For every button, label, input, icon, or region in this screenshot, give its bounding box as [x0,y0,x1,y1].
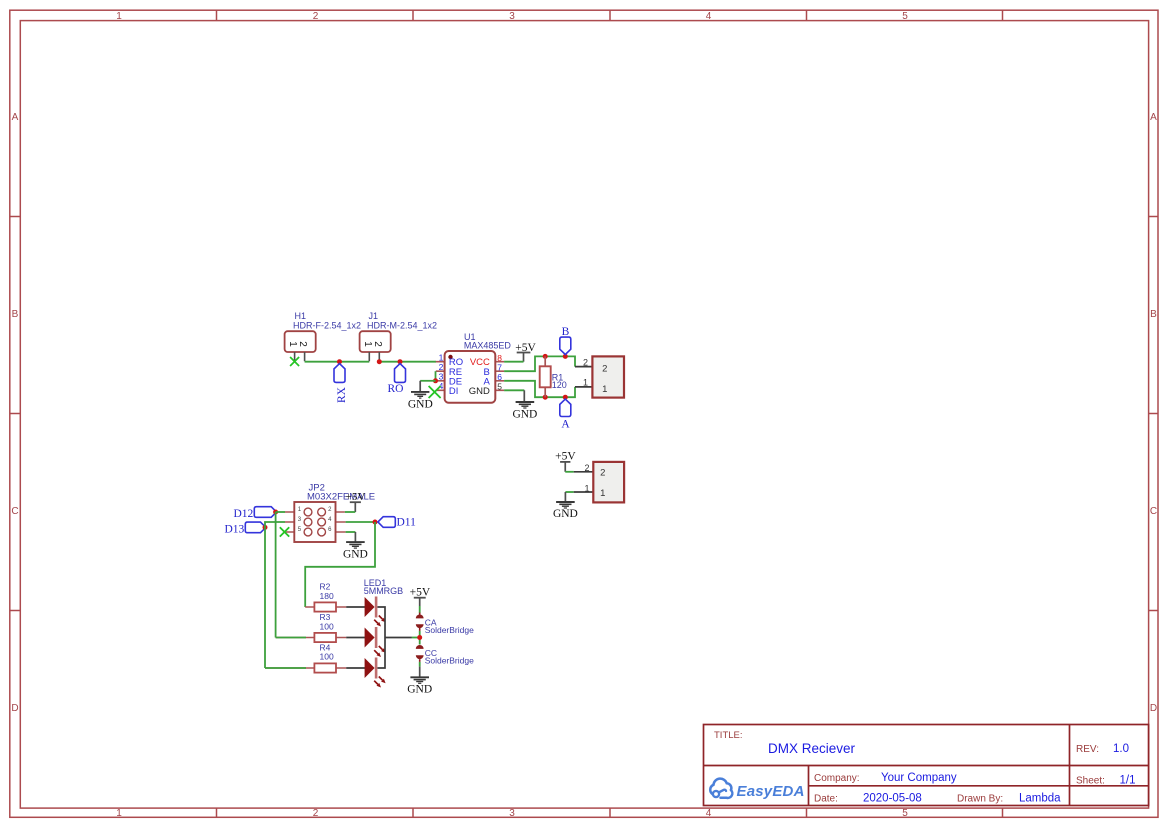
U1 pin number 8 [497,353,502,363]
junction RX [337,359,342,364]
svg-text:D: D [1150,703,1157,714]
junction D11 [373,520,378,525]
U1 pin number 7 [497,363,502,373]
P2 pin label 2 [584,463,589,473]
svg-text:1: 1 [116,808,122,819]
wire net RO (J1.2 to U1.1) [379,361,436,363]
svg-text:2020-05-08: 2020-05-08 [863,793,922,805]
JP2 pin number 1 [298,507,302,513]
net flag D12 [233,507,276,520]
svg-text:TITLE:: TITLE: [714,730,743,741]
JP2 pin number 2 [328,507,332,513]
wire R4 left green [265,667,306,669]
svg-text:C: C [11,506,18,517]
junction D13 [263,525,268,530]
U1 pin number 1 [439,352,444,362]
U1 pin name RE [449,367,462,378]
no-connect X on U1 pin 4 DI [429,386,441,398]
P1 pin label 2 [583,357,588,367]
header JP2 [285,483,375,543]
U1 pin name B [484,367,490,378]
wire LED cathode bus [378,607,412,668]
svg-text:Sheet:: Sheet: [1076,776,1105,787]
wire R2 to LED1 red anode [346,606,365,608]
solder bridge CA [416,613,474,635]
U1 pin name VCC [470,357,490,368]
wire D11 down and across to R2 [305,522,375,607]
svg-text:HDR-F-2.54_1x2: HDR-F-2.54_1x2 [293,321,361,331]
svg-text:2: 2 [313,808,319,819]
resistor R1 [540,356,567,397]
junction R1 top [543,354,548,359]
U1 pin name GND [469,386,490,397]
svg-text:3: 3 [509,11,515,22]
svg-text:DMX Reciever: DMX Reciever [768,741,856,756]
wire CC to ground [419,662,421,677]
wire net B [504,356,575,371]
net flag RO [388,364,406,395]
power +5V at U1 pin 8 [515,342,536,362]
connector P1 [592,356,624,397]
svg-text:1: 1 [583,378,588,388]
svg-text:B: B [12,309,19,320]
U1 pin name RO [449,357,463,368]
U1 pin name DI [449,386,459,397]
svg-text:GND: GND [512,409,537,421]
resistor R4 [265,642,346,672]
svg-text:8: 8 [497,353,502,363]
svg-text:A: A [12,112,19,123]
svg-text:120: 120 [552,380,567,390]
svg-text:RO: RO [388,383,404,395]
wire RE-DE tie [435,371,437,381]
svg-text:2: 2 [584,463,589,473]
junction D12 [273,510,278,515]
svg-text:Lambda: Lambda [1019,793,1061,805]
svg-text:5: 5 [902,808,908,819]
wire JP2 pin 3 to D13 and down to R4 [265,522,285,668]
JP2 pin number 3 [298,517,302,523]
svg-text:H1: H1 [295,311,307,321]
junction J1.2 [377,359,382,364]
svg-text:100: 100 [320,621,334,631]
wire DE to ground [420,381,435,392]
wire R4 to LED1 blue anode [346,667,365,669]
LED LED1 5MMRGB label [364,578,404,596]
svg-text:D12: D12 [233,508,253,520]
net flag RX [334,364,348,403]
ground near U1 [408,392,433,410]
power +5V at P2 [555,451,576,472]
svg-text:1: 1 [584,484,589,494]
svg-text:5MMRGB: 5MMRGB [364,586,404,596]
svg-text:1: 1 [116,11,122,22]
op-amp U1 MAX485ED [436,332,512,403]
svg-text:2: 2 [313,11,319,22]
svg-text:B: B [562,326,570,338]
wire P2 pin 1 [565,492,593,502]
wire net RX (H1.2 to J1.1) [305,361,370,363]
svg-text:1.0: 1.0 [1113,743,1129,755]
net flag D11 [378,517,416,529]
svg-text:GND: GND [408,398,433,410]
svg-text:4: 4 [706,11,712,22]
svg-text:DI: DI [449,386,459,397]
svg-text:Drawn By:: Drawn By: [957,794,1003,805]
LED1 green diode [365,627,386,657]
svg-text:180: 180 [320,591,334,601]
wire D12 to JP2 pin 1 [276,511,285,513]
svg-text:2: 2 [439,362,444,372]
svg-text:GND: GND [407,684,432,696]
wire D12 down to R3 [275,512,277,638]
junction DE [433,378,438,383]
svg-text:HDR-M-2.54_1x2: HDR-M-2.54_1x2 [367,321,437,331]
svg-text:REV:: REV: [1076,744,1099,755]
connector P1 pins [575,367,592,387]
svg-text:+5V: +5V [346,491,366,503]
header J1 [360,311,437,361]
svg-text:7: 7 [497,363,502,373]
svg-text:2: 2 [600,468,605,479]
junction R1 bottom [543,395,548,400]
no-connect X on JP2 pin 5 [280,527,289,536]
power +5V at JP2 pin 2 [346,491,366,512]
svg-text:5: 5 [497,382,502,392]
svg-text:4: 4 [706,808,712,819]
svg-text:A: A [1150,112,1157,123]
svg-text:1: 1 [362,341,373,347]
U1 pin number 4 [439,381,444,391]
junction net flag A [563,395,568,400]
svg-text:6: 6 [497,372,502,382]
svg-text:Company:: Company: [814,773,860,784]
ground below CC [407,677,432,695]
EasyEDA logo [710,779,804,800]
svg-text:SolderBridge: SolderBridge [425,655,474,665]
svg-text:J1: J1 [369,311,379,321]
ground at P2 [553,502,578,520]
svg-text:Your Company: Your Company [881,772,957,784]
U1 pin number 6 [497,372,502,382]
svg-text:2: 2 [583,357,588,367]
U1 pin number 2 [439,362,444,372]
junction RO [398,359,403,364]
svg-text:GND: GND [469,386,490,397]
svg-text:1/1: 1/1 [1120,775,1136,787]
header H1 [285,311,361,361]
svg-text:D: D [11,703,18,714]
wire JP2 pin 4 to D11 [346,521,375,523]
svg-text:SolderBridge: SolderBridge [425,625,474,635]
LED1 blue diode [365,658,386,688]
wire R3 left green [276,637,306,639]
U1 pin number 3 [439,372,444,382]
net flag B [560,326,571,355]
U1 pin name A [484,376,491,387]
svg-text:EasyEDA: EasyEDA [737,783,805,800]
junction solder bridges [417,635,422,640]
svg-text:2: 2 [297,341,308,347]
svg-text:1: 1 [600,488,605,499]
ground at JP2 pin 6 [343,542,368,560]
svg-text:D13: D13 [224,523,244,535]
svg-text:1: 1 [439,352,444,362]
wire cathode to bridge junction [412,637,418,639]
wire CA to junction to CC [419,631,421,645]
svg-text:A: A [561,419,570,431]
P1 pin label 1 [583,378,588,388]
wire GND pin5 [504,390,524,401]
svg-text:D11: D11 [397,517,417,529]
title block [704,725,1149,806]
JP2 pin number 4 [328,517,332,523]
svg-text:3: 3 [509,808,515,819]
wire P2 pin 2 [565,471,593,473]
wire VCC [504,361,523,363]
svg-text:+5V: +5V [555,451,576,463]
svg-text:+5V: +5V [410,586,431,598]
svg-text:MAX485ED: MAX485ED [464,341,512,351]
svg-text:2: 2 [602,363,607,374]
junction net flag B [563,354,568,359]
svg-text:GND: GND [553,508,578,520]
wire net A [504,381,575,397]
U1 pin name DE [449,376,462,387]
JP2 pin number 6 [328,527,332,533]
svg-text:GND: GND [343,549,368,561]
svg-text:2: 2 [372,341,383,347]
wire JP2 pin 6 to ground [346,532,356,542]
wire R3 to LED1 green anode [346,637,365,639]
power +5V at solder bridge CA [410,586,431,606]
ground at U1 pin 5 [512,402,537,421]
svg-text:5: 5 [902,11,908,22]
wire JP2 pin 2 to power [345,511,355,513]
svg-text:RX: RX [336,386,348,403]
svg-text:1: 1 [602,384,607,395]
svg-text:Date:: Date: [814,794,838,805]
wire power to CA [419,606,421,613]
svg-text:3: 3 [439,372,444,382]
no-connect X on H1 pin 1 [290,357,299,366]
resistor R2 [305,582,346,612]
LED1 red diode [365,597,386,627]
svg-text:R2: R2 [320,582,331,592]
connector P2 [593,462,624,503]
svg-text:C: C [1150,506,1157,517]
net flag A [560,399,571,430]
resistor R3 [276,612,347,642]
svg-text:100: 100 [320,652,334,662]
net flag D13 [224,522,265,535]
P2 pin label 1 [584,484,589,494]
JP2 pin number 5 [298,527,302,533]
svg-text:B: B [1150,309,1157,320]
U1 pin number 5 [497,382,502,392]
solder bridge CC [416,645,474,665]
svg-text:1: 1 [287,341,298,347]
